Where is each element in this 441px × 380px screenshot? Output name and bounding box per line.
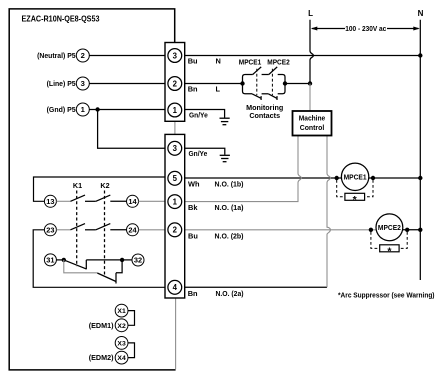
wire: stub block J1 bottom to block J2 top [174, 121, 176, 134]
svg-text:Control: Control [300, 123, 325, 132]
svg-text:23: 23 [46, 226, 54, 235]
K1 linkage (dashed) [76, 191, 78, 267]
svg-text:X4: X4 [117, 355, 126, 362]
wire: 31 to junction A [56, 259, 63, 261]
junction A (31 side) [62, 258, 66, 262]
svg-text:K2: K2 [100, 181, 109, 190]
svg-text:Gn/Ye: Gn/Ye [189, 149, 208, 158]
svg-text:MPCE2: MPCE2 [267, 60, 290, 67]
svg-text:Bk: Bk [188, 203, 198, 212]
svg-text:2: 2 [81, 51, 85, 60]
wire: K1 to K2 (row 23-24) [85, 229, 96, 231]
contact K1 blade (row 23-24) [71, 224, 86, 230]
junction: monitoring contacts right [283, 81, 287, 85]
arc suppressor MPCE1 (dashed) [337, 180, 373, 197]
svg-text:13: 13 [46, 197, 54, 206]
svg-text:14: 14 [128, 197, 137, 206]
wire: machine control right lead (hops over Wh and Bu rows) [327, 136, 330, 288]
svg-text:*Arc Suppressor (see Warning): *Arc Suppressor (see Warning) [338, 290, 435, 299]
terminal J2-1 [168, 195, 182, 209]
wire: 23 to K1 contact [56, 229, 70, 231]
wire: P5-3 to J1-2 [89, 83, 165, 85]
svg-text:MPCE2: MPCE2 [378, 225, 401, 232]
wire: Bk N.O.(1a) row / machine control left lead (with hop) [185, 136, 302, 202]
pin P5-3 (Line) [76, 77, 89, 90]
supply rail L (with hop over N row) [310, 20, 313, 84]
junction: N row at N rail [418, 53, 422, 57]
wire: K2 to contact 14 [110, 200, 126, 202]
wire: L row (Bn) to monitoring contacts [185, 83, 243, 85]
svg-text:32: 32 [134, 256, 142, 265]
dimension 100 - 230V ac [311, 24, 420, 33]
relay contact terminal 14 [127, 195, 139, 207]
svg-text:5: 5 [173, 174, 178, 183]
terminal J2-2 [168, 223, 182, 237]
svg-text:L: L [216, 85, 221, 94]
terminal J2-4 [168, 280, 182, 294]
junction: MPCE1 right [371, 176, 375, 180]
svg-text:31: 31 [46, 256, 54, 265]
contact K1 N.C. blade (feedback) [64, 260, 87, 269]
junction: MPCE1 at N rail [418, 176, 422, 180]
K2 linkage (dashed) [104, 191, 106, 277]
wire: crossover underpass A to K2 feedback [64, 260, 98, 273]
wire: J2-5 (Wh) loop to contact 13 [34, 177, 166, 201]
MPCE2 coil [376, 214, 403, 241]
supply rail N [419, 20, 421, 280]
wire: contact 23 loop to J2-4 (Bn) [33, 230, 165, 287]
module outline EZAC enclosure [9, 9, 175, 370]
wire: Wh N.O.(1b) row to MPCE1 [185, 177, 421, 179]
terminal block J2 [165, 134, 185, 298]
junction: monitoring contacts left [240, 81, 244, 85]
wire: L rail to machine control [309, 84, 311, 112]
svg-text:X3: X3 [117, 340, 126, 347]
relay contact terminal 13 [44, 195, 56, 207]
terminal J2-3 [168, 141, 182, 155]
svg-text:Bu: Bu [188, 231, 198, 240]
earth ground symbol (J1) [220, 118, 230, 125]
svg-text:Gn/Ye: Gn/Ye [189, 110, 208, 119]
MPCE1 coil [341, 163, 368, 190]
svg-text:N: N [418, 9, 424, 18]
svg-text:Contacts: Contacts [249, 111, 280, 120]
svg-text:Machine: Machine [299, 113, 326, 122]
monitoring contacts MPCE1/MPCE2 [243, 67, 286, 100]
svg-text:N.O. (1a): N.O. (1a) [215, 203, 245, 212]
wire: Gn/Ye row (J2) to earth [185, 148, 225, 154]
wire: MPCE2 to N rail [403, 229, 421, 231]
svg-text:(Line) P5: (Line) P5 [47, 79, 76, 88]
wire: Gn/Ye row (J1) to earth [185, 110, 225, 118]
contact K2 N.C. blade (feedback) [97, 273, 116, 282]
junction: MPCE2 left [369, 228, 373, 232]
svg-text:2: 2 [173, 226, 178, 235]
wire: 13 to K1 contact [56, 200, 70, 202]
svg-text:(EDM2): (EDM2) [89, 353, 114, 362]
EDM terminal X1 [115, 304, 128, 317]
svg-text:2: 2 [173, 79, 178, 88]
wire: P5-1 to J1-1 [89, 109, 165, 111]
svg-text:N.O. (1b): N.O. (1b) [215, 180, 245, 189]
wire: K2 feedback step to junction B [116, 260, 122, 273]
contact K2 blade (row 13-14) [96, 195, 111, 201]
relay contact terminal 23 [44, 224, 56, 236]
wire: 14 to J2-1 (Bk) [139, 200, 166, 202]
svg-text:3: 3 [173, 51, 178, 60]
EDM terminal X4 [115, 351, 128, 364]
svg-text:(Gnd) P5: (Gnd) P5 [47, 105, 76, 114]
svg-text:(EDM1): (EDM1) [89, 321, 114, 330]
wire: junction B to 32 [122, 259, 132, 261]
junction B (32 side) [120, 258, 124, 262]
svg-text:X1: X1 [117, 308, 126, 315]
wire: K1 feedback to junction B [86, 259, 122, 261]
svg-text:EZAC-R10N-QE8-QS53: EZAC-R10N-QE8-QS53 [22, 14, 100, 23]
wire: X3-X4 jumper [128, 343, 135, 358]
svg-text:3: 3 [173, 144, 178, 153]
terminal J1-2 [168, 77, 182, 91]
junction: MPCE2 right [405, 228, 409, 232]
junction: at L rail [308, 81, 312, 85]
terminal J1-1 [168, 103, 182, 117]
EDM terminal X3 [115, 337, 128, 350]
pin P5-2 (Neutral) [76, 49, 89, 62]
wire: monitoring contacts to L rail [285, 83, 310, 85]
wire: K2 to contact 24 [110, 229, 126, 231]
junction: MPCE1 left [335, 176, 339, 180]
wire: Bn N.O.(2a) row [185, 286, 327, 288]
svg-text:(Neutral) P5: (Neutral) P5 [37, 51, 76, 60]
relay feedback terminal 32 [132, 254, 144, 266]
junction: MPCE2 at N rail [418, 228, 422, 232]
MPCE1 mechanical linkage (dashed) [256, 69, 258, 96]
wire: X1-X2 jumper [128, 311, 135, 326]
junction: gnd branch [95, 107, 99, 111]
wire: P5-2 to J1-3 [89, 55, 165, 57]
pin P5-1 (Gnd) [76, 103, 89, 116]
svg-text:L: L [308, 9, 313, 18]
relay contact terminal 24 [127, 224, 139, 236]
svg-text:MPCE1: MPCE1 [239, 60, 262, 67]
svg-text:Wh: Wh [188, 180, 200, 189]
wire: Bu N.O.(2b) row to MPCE2 [185, 229, 377, 231]
svg-text:Bn: Bn [188, 85, 198, 94]
terminal J1-3 [168, 49, 182, 63]
svg-text:1: 1 [173, 198, 178, 207]
wire: gnd branch to J2-3 [98, 110, 165, 149]
svg-text:1: 1 [173, 106, 178, 115]
arc suppressor MPCE2 (dashed) [371, 232, 407, 248]
MPCE2 mechanical linkage (dashed) [271, 69, 273, 96]
svg-text:K1: K1 [73, 181, 82, 190]
wire: N row (Bu) to N rail [185, 55, 421, 57]
svg-text:3: 3 [81, 79, 85, 88]
relay feedback terminal 31 [44, 254, 56, 266]
terminal block J1 [165, 43, 185, 122]
contact K2 N.C. stop tick [115, 273, 117, 284]
wire: K1 to K2 (row 13-14) [85, 200, 96, 202]
terminal J2-5 [168, 171, 182, 185]
svg-text:N.O. (2b): N.O. (2b) [215, 231, 245, 240]
svg-text:N: N [216, 57, 221, 66]
machine control box [293, 111, 332, 136]
contact K1 blade (row 13-14) [71, 195, 86, 201]
wire: stub block J2 bottom to module outline [175, 298, 177, 369]
EDM terminal X2 [115, 319, 128, 332]
contact K1 N.C. stop tick [85, 260, 87, 269]
svg-text:4: 4 [173, 283, 178, 292]
wire: 24 to J2-2 (Bu) [139, 229, 166, 231]
svg-text:Bn: Bn [188, 289, 198, 298]
earth ground symbol (J2) [220, 155, 230, 161]
svg-text:Bu: Bu [188, 57, 198, 66]
svg-text:100 - 230V ac: 100 - 230V ac [345, 24, 386, 33]
svg-text:N.O. (2a): N.O. (2a) [216, 289, 244, 298]
svg-text:24: 24 [128, 226, 137, 235]
svg-text:MPCE1: MPCE1 [344, 174, 367, 181]
contact K2 blade (row 23-24) [96, 224, 111, 230]
svg-text:X2: X2 [117, 323, 126, 330]
